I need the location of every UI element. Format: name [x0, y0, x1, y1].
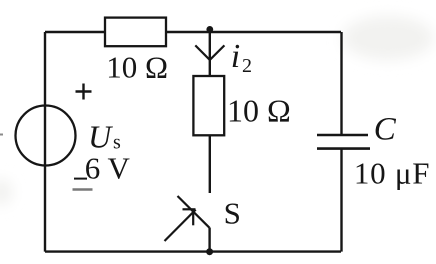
svg-text:10 Ω: 10 Ω — [227, 92, 291, 128]
wire top — [45, 31, 341, 33]
node dot top junction — [206, 26, 213, 33]
switch arrow shaft — [165, 210, 196, 241]
switch arrow barb vertical — [192, 210, 194, 226]
resistor R middle 10 ohm vertical — [193, 76, 224, 135]
left edge tick — [0, 134, 3, 136]
underscore before 6 — [74, 178, 87, 180]
svg-text:10 μF: 10 μF — [354, 156, 430, 191]
svg-text:U: U — [88, 119, 113, 155]
svg-text:10 Ω: 10 Ω — [106, 49, 168, 84]
wire middle branch upper — [209, 30, 211, 76]
switch arrow barb horizontal — [183, 208, 196, 210]
node dot bottom junction — [206, 248, 213, 255]
minus sign of source — [73, 188, 93, 190]
svg-text:2: 2 — [242, 55, 252, 77]
switch S blade — [178, 196, 210, 228]
wire right upper — [340, 32, 342, 134]
capacitor C bottom plate — [317, 147, 370, 150]
svg-text:C: C — [374, 111, 397, 147]
voltage source U_s circle — [16, 106, 76, 166]
wire right lower — [340, 149, 342, 252]
wire middle branch lower — [209, 135, 211, 193]
svg-text:i: i — [231, 38, 240, 75]
wire below switch — [208, 228, 210, 252]
svg-text:6 V: 6 V — [85, 150, 131, 185]
wire bottom — [45, 250, 341, 252]
svg-text:S: S — [224, 196, 241, 231]
wire left — [44, 32, 46, 252]
smudge bottom-left — [0, 179, 12, 205]
plus sign of source — [76, 84, 92, 100]
arrowhead i2 — [195, 45, 224, 60]
resistor R top 10 ohm — [105, 18, 166, 47]
smudge top-right — [342, 16, 434, 60]
capacitor C top plate — [317, 134, 368, 137]
